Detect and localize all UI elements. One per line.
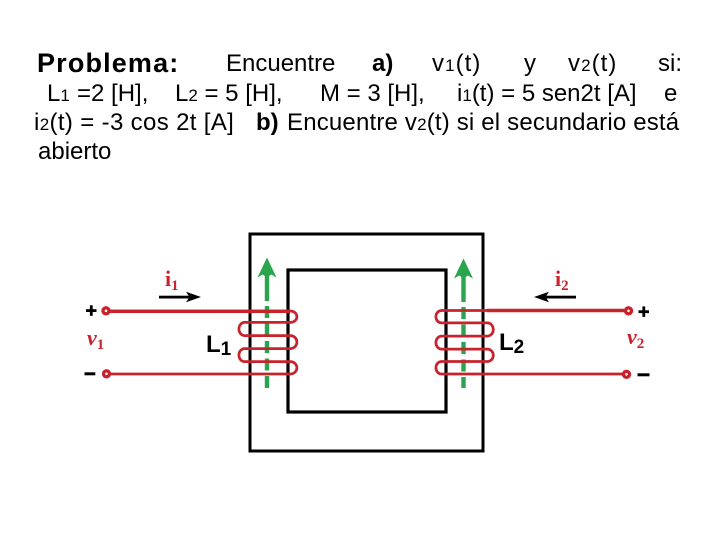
- label v1: [87, 327, 104, 349]
- terminal top-right: [626, 308, 632, 314]
- terminal bottom-right: [624, 371, 630, 377]
- flux arrow right (green dashed): [454, 259, 473, 389]
- label L1: [206, 333, 231, 357]
- text line 2: [47, 82, 70, 106]
- label i2: [555, 268, 569, 290]
- label i1: [165, 268, 179, 290]
- text line 3: [34, 111, 234, 135]
- current arrow i1 (black, right): [159, 292, 201, 302]
- core inner rectangle (window): [288, 270, 446, 412]
- coil L2 winding: [436, 311, 624, 375]
- plus sign left: [86, 305, 97, 316]
- current arrow i2 (black, left): [534, 292, 576, 302]
- terminal bottom-left: [104, 371, 110, 377]
- flux arrow left (green dashed): [258, 258, 277, 389]
- core outer rectangle: [250, 234, 483, 451]
- label L2: [499, 331, 524, 355]
- minus sign right: [638, 373, 650, 376]
- wire top-left (thick): [110, 310, 290, 313]
- coil L1 winding: [110, 311, 297, 374]
- label v2: [627, 326, 644, 348]
- plus sign right: [639, 306, 650, 317]
- title text line 1: [37, 50, 179, 77]
- terminal top-left: [103, 308, 109, 314]
- text line 4: [38, 140, 111, 164]
- wire top-right (thick): [487, 309, 624, 312]
- minus sign left: [85, 372, 96, 375]
